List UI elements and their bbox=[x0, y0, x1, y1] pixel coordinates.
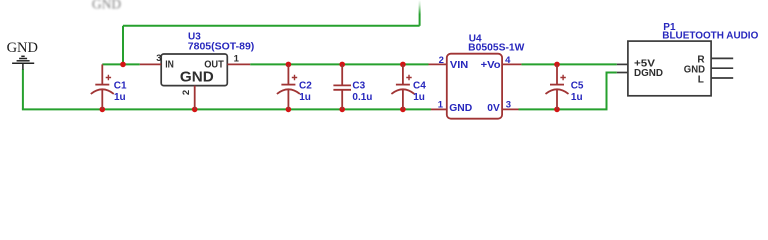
capacitor C2 bbox=[277, 64, 300, 109]
capacitor C4 bbox=[391, 64, 414, 109]
svg-text:3: 3 bbox=[506, 99, 511, 110]
node: C4 top bbox=[400, 62, 406, 68]
voltage regulator U3 bbox=[161, 54, 227, 86]
svg-text:1u: 1u bbox=[114, 92, 126, 103]
U3 pin 2 (GND) stub bbox=[194, 86, 196, 110]
wire: bottom GND rail bbox=[22, 108, 431, 110]
U3 pin 1 (OUT) stub bbox=[227, 63, 250, 65]
wire: top horizontal net tie bbox=[123, 25, 420, 27]
svg-text:C3: C3 bbox=[352, 81, 365, 92]
node: C3 top bbox=[339, 62, 345, 68]
node: U3 pin2 bottom bbox=[192, 107, 198, 113]
svg-text:2: 2 bbox=[181, 90, 192, 95]
svg-text:GND: GND bbox=[449, 102, 472, 114]
svg-text:VIN: VIN bbox=[450, 59, 468, 71]
node: C2 top bbox=[286, 62, 292, 68]
svg-text:1u: 1u bbox=[413, 92, 425, 103]
svg-text:C2: C2 bbox=[299, 81, 312, 92]
svg-text:7805(SOT-89): 7805(SOT-89) bbox=[188, 42, 255, 53]
svg-text:4: 4 bbox=[505, 55, 511, 66]
ground power port GND bbox=[12, 56, 34, 69]
P1 GND pin stub bbox=[711, 67, 733, 69]
node: top-wire / input rail junction bbox=[120, 62, 126, 68]
node: C1 bottom bbox=[100, 107, 106, 113]
capacitor C3 bbox=[333, 64, 351, 109]
wire: GND drop from power symbol bbox=[22, 69, 24, 109]
node: C3 bottom bbox=[339, 107, 345, 113]
wire: U3 OUT to U4 VIN bbox=[250, 63, 428, 65]
P1 L pin stub bbox=[711, 77, 733, 79]
svg-text:1u: 1u bbox=[299, 92, 311, 103]
node: C5 top bbox=[554, 62, 560, 68]
svg-text:1u: 1u bbox=[571, 92, 583, 103]
svg-text:GND: GND bbox=[92, 0, 121, 12]
wire: U4 +Vo to P1 +5V bbox=[521, 63, 616, 65]
svg-text:3: 3 bbox=[156, 53, 161, 64]
node: C2 bottom bbox=[286, 107, 292, 113]
svg-text:C5: C5 bbox=[571, 81, 584, 92]
node: C5 bottom bbox=[554, 107, 560, 113]
U3 pin 3 (IN) stub bbox=[140, 63, 161, 65]
node: C4 bottom bbox=[400, 107, 406, 113]
DC-DC converter U4 bbox=[447, 54, 502, 119]
svg-text:0.1u: 0.1u bbox=[352, 92, 372, 103]
svg-text:2: 2 bbox=[439, 55, 444, 66]
svg-text:BLUETOOTH AUDIO: BLUETOOTH AUDIO bbox=[662, 31, 758, 42]
capacitor C5 bbox=[546, 64, 569, 109]
svg-text:GND: GND bbox=[7, 40, 38, 56]
svg-text:1: 1 bbox=[234, 53, 240, 64]
svg-text:0V: 0V bbox=[487, 102, 500, 114]
U4 pin 1 (GND) stub bbox=[431, 108, 447, 110]
svg-text:+Vo: +Vo bbox=[481, 59, 501, 71]
U4 pin 3 (0V) stub bbox=[502, 108, 518, 110]
svg-text:C4: C4 bbox=[413, 81, 426, 92]
svg-text:L: L bbox=[698, 75, 704, 86]
svg-text:GND: GND bbox=[180, 69, 214, 86]
wire: vertical drop from top wire to input rail bbox=[122, 26, 124, 65]
wire: U4 0V to P1 DGND bbox=[519, 73, 617, 110]
svg-text:C1: C1 bbox=[114, 81, 127, 92]
wire: vertical exiting top (faded) bbox=[419, 0, 421, 26]
P1 +5V pin stub bbox=[617, 63, 628, 65]
U4 pin 2 (VIN) stub bbox=[429, 63, 447, 65]
svg-text:B0505S-1W: B0505S-1W bbox=[468, 43, 525, 54]
svg-text:IN: IN bbox=[165, 59, 174, 70]
wire: input rail C1 to U3 pin3 bbox=[102, 63, 140, 65]
junction dots bbox=[100, 62, 560, 113]
svg-text:1: 1 bbox=[438, 99, 444, 110]
P1 DGND pin stub bbox=[617, 72, 628, 74]
capacitor C1 bbox=[91, 64, 114, 109]
P1 R pin stub bbox=[711, 57, 733, 59]
connector P1 bbox=[628, 41, 711, 96]
svg-text:DGND: DGND bbox=[634, 68, 663, 79]
U4 pin 4 (+Vo) stub bbox=[502, 63, 521, 65]
